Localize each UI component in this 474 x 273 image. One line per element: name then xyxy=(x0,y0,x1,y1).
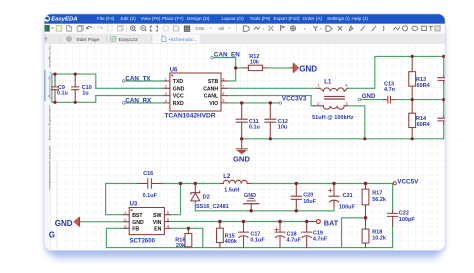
svg-text:SS16_C2481: SS16_C2481 xyxy=(196,204,229,210)
svg-text:0.05: 0.05 xyxy=(196,26,205,31)
svg-text:C21: C21 xyxy=(343,193,353,199)
svg-text:D2: D2 xyxy=(203,195,210,201)
svg-text:•Schematic...: •Schematic... xyxy=(169,37,198,43)
svg-text:1: 1 xyxy=(124,210,126,215)
svg-text:5: 5 xyxy=(167,217,169,222)
svg-text:3: 3 xyxy=(165,91,167,96)
svg-text:GND: GND xyxy=(55,219,73,228)
svg-text:Layout (O): Layout (O) xyxy=(222,16,245,21)
svg-text:C20: C20 xyxy=(303,193,313,199)
svg-text:GND: GND xyxy=(244,193,256,199)
svg-text:Order (A): Order (A) xyxy=(303,16,323,21)
svg-text:L2: L2 xyxy=(223,174,231,180)
svg-text:L1: L1 xyxy=(324,80,332,86)
svg-text:2: 2 xyxy=(165,84,167,89)
svg-text:0.1uF: 0.1uF xyxy=(143,193,158,199)
svg-text:10k: 10k xyxy=(250,60,260,66)
svg-text:400k: 400k xyxy=(225,239,238,245)
svg-text:20k: 20k xyxy=(176,243,186,249)
svg-text:GND: GND xyxy=(362,93,376,100)
svg-text:Start Page: Start Page xyxy=(76,37,99,43)
svg-text:mil: mil xyxy=(219,26,225,31)
svg-text:1.5uH: 1.5uH xyxy=(224,188,239,194)
svg-text:60R4: 60R4 xyxy=(417,122,431,128)
svg-text:0.1uF: 0.1uF xyxy=(250,237,265,243)
svg-text:6: 6 xyxy=(167,210,169,215)
svg-text:U6: U6 xyxy=(170,67,178,73)
svg-text:7: 7 xyxy=(222,84,224,89)
svg-text:G: G xyxy=(49,230,55,239)
svg-text:Easy123: Easy123 xyxy=(119,37,138,43)
svg-text:1u: 1u xyxy=(82,91,88,97)
svg-text:10u: 10u xyxy=(278,125,287,131)
svg-text:Design (D): Design (D) xyxy=(187,16,210,21)
svg-text:EN: EN xyxy=(154,227,161,233)
svg-text:GND: GND xyxy=(173,86,185,92)
svg-text:TXD: TXD xyxy=(173,79,184,85)
svg-text:GND: GND xyxy=(233,155,250,164)
svg-text:VCC: VCC xyxy=(173,94,184,100)
svg-text:R18: R18 xyxy=(372,229,382,235)
svg-text:GND: GND xyxy=(299,64,317,73)
svg-text:2: 2 xyxy=(317,101,319,106)
svg-text:View (F6): View (F6) xyxy=(141,16,161,21)
svg-text:3: 3 xyxy=(345,101,347,106)
svg-text:100pF: 100pF xyxy=(399,217,416,223)
svg-text:1: 1 xyxy=(318,83,320,88)
svg-text:VIN: VIN xyxy=(153,220,162,226)
svg-text:CAN_TX: CAN_TX xyxy=(125,75,151,82)
svg-text:C16: C16 xyxy=(143,171,153,177)
svg-text:CAN_EN: CAN_EN xyxy=(214,51,240,58)
svg-text:STB: STB xyxy=(208,79,219,85)
svg-text:Help (J): Help (J) xyxy=(352,16,369,21)
svg-text:10uF: 10uF xyxy=(303,199,316,205)
svg-text:U3: U3 xyxy=(130,201,138,207)
svg-text:RXD: RXD xyxy=(173,101,184,107)
svg-text:60R4: 60R4 xyxy=(417,83,431,89)
svg-text:CANL: CANL xyxy=(204,94,219,100)
svg-text:1: 1 xyxy=(165,76,167,81)
svg-text:CAN_RX: CAN_RX xyxy=(125,97,152,104)
svg-text:5: 5 xyxy=(222,98,224,103)
svg-text:BAT: BAT xyxy=(324,218,339,227)
svg-text:0.1u: 0.1u xyxy=(249,125,260,131)
svg-text:CANH: CANH xyxy=(203,86,218,92)
svg-text:Export (F10): Export (F10) xyxy=(274,16,300,21)
svg-text:10.2k: 10.2k xyxy=(372,236,387,242)
svg-text:VCC3V3: VCC3V3 xyxy=(282,96,307,103)
svg-text:VCC5V: VCC5V xyxy=(397,178,419,185)
svg-text:Settings (I): Settings (I) xyxy=(327,16,350,21)
svg-text:4.7uF: 4.7uF xyxy=(287,237,302,243)
svg-text:Edit (Z): Edit (Z) xyxy=(121,16,137,21)
svg-text:2: 2 xyxy=(124,217,126,222)
svg-text:Tools (F9): Tools (F9) xyxy=(250,16,271,21)
svg-text:8: 8 xyxy=(222,76,224,81)
svg-text:FB: FB xyxy=(132,227,139,233)
svg-text:Place (F7): Place (F7) xyxy=(162,16,184,21)
svg-text:3: 3 xyxy=(124,224,126,229)
svg-text:File (F3): File (F3) xyxy=(97,16,115,21)
svg-text:C22: C22 xyxy=(399,211,409,217)
svg-text:4.7nF: 4.7nF xyxy=(313,237,328,243)
svg-text:SW: SW xyxy=(153,213,161,219)
svg-text:BST: BST xyxy=(132,213,143,219)
svg-text:VIO: VIO xyxy=(209,101,218,107)
svg-text:R17: R17 xyxy=(372,191,382,197)
svg-text:EasyEDA: EasyEDA xyxy=(51,17,77,23)
svg-text:4.7n: 4.7n xyxy=(384,87,396,93)
svg-text:51uH @ 100kHz: 51uH @ 100kHz xyxy=(312,115,354,121)
svg-text:0.1u: 0.1u xyxy=(57,91,68,97)
svg-text:TCAN1042HVDR: TCAN1042HVDR xyxy=(165,113,216,120)
svg-text:GND: GND xyxy=(132,220,144,226)
svg-text:SCT2600: SCT2600 xyxy=(130,238,156,244)
svg-text:6: 6 xyxy=(222,91,224,96)
svg-text:100uF: 100uF xyxy=(339,204,356,210)
svg-text:56.2k: 56.2k xyxy=(372,197,387,203)
